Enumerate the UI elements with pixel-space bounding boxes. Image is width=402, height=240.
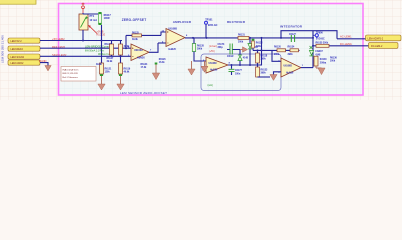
- svg-text:390k: 390k: [261, 59, 267, 61]
- diode D6107: [309, 50, 323, 56]
- svg-text:49.9k: 49.9k: [96, 63, 102, 66]
- no-connect mark: [310, 46, 313, 49]
- poti wiper arrow red: [89, 25, 98, 33]
- svg-text:LEM-ADXF5-2: LEM-ADXF5-2: [368, 37, 384, 40]
- svg-text:100n: 100n: [235, 73, 241, 75]
- svg-text:200ka: 200ka: [320, 63, 327, 65]
- title text vertical: [1, 35, 5, 63]
- svg-text:LEM-GND2: LEM-GND2: [11, 62, 25, 65]
- svg-text:C6173: C6173: [218, 44, 225, 46]
- svg-text:HuN26: HuN26: [286, 72, 294, 74]
- svg-text:LEM-REF2: LEM-REF2: [11, 48, 24, 51]
- wire feedback row R6125: [126, 32, 166, 48]
- svg-text:INA 0.5mA Term: INA 0.5mA Term: [63, 68, 79, 71]
- resistor R6132: [252, 39, 264, 51]
- svg-text:LEM-5V-2: LEM-5V-2: [11, 40, 23, 43]
- wire integrator feedback top: [281, 31, 337, 39]
- ground below R6121: [98, 76, 105, 90]
- op-amp U6106D integrator: [278, 58, 304, 77]
- svg-text:17.3k: 17.3k: [141, 67, 147, 69]
- svg-text:DC-LEM1: DC-LEM1: [340, 42, 352, 46]
- wire zero-offset output: [149, 43, 158, 52]
- diode D6105: [248, 38, 258, 65]
- ground integrator: [270, 75, 277, 81]
- wire integrator output: [301, 67, 313, 69]
- wire cap tap vertical: [261, 38, 263, 51]
- svg-text:16.3k: 16.3k: [159, 62, 165, 64]
- net label +5V small: [209, 51, 215, 53]
- resistor R6128: [192, 38, 206, 61]
- wire DC row: [313, 45, 369, 47]
- svg-text:R6125: R6125: [132, 32, 139, 34]
- svg-text:Ref:1 Tolerance: Ref:1 Tolerance: [63, 76, 79, 79]
- junction dots: [82, 37, 314, 66]
- wire bridge right vertical: [120, 41, 122, 66]
- resistor R6122: [119, 44, 130, 55]
- svg-text:C6177: C6177: [235, 70, 242, 72]
- svg-text:R6133: R6133: [261, 69, 268, 71]
- svg-text:C6127: C6127: [289, 34, 296, 36]
- caption LEM SENSOR ZERO-OFFSET: [120, 91, 167, 95]
- net label PGND: [39, 59, 47, 63]
- wire R6123 vertical: [111, 41, 113, 57]
- value 49.9k note: [96, 63, 102, 66]
- port LEM-ADXF5-2: [366, 35, 402, 41]
- capacitor C6127: [289, 34, 296, 42]
- svg-text:LEM SENSOR ZERO-OFFSET: LEM SENSOR ZERO-OFFSET: [120, 91, 167, 95]
- svg-text:(n/w): (n/w): [208, 84, 214, 87]
- resistor R6118: [256, 50, 268, 63]
- resistor R6130: [314, 56, 327, 66]
- resistor R6126 to ground: [152, 59, 166, 80]
- svg-text:(+5V): (+5V): [209, 51, 215, 53]
- svg-text:INA 50mA 1:1 Res: INA 50mA 1:1 Res: [85, 49, 105, 52]
- wire +5V row: [40, 40, 122, 42]
- resistor R6131: [238, 34, 249, 43]
- resistor R6121: [100, 63, 112, 76]
- svg-text:390k: 390k: [256, 46, 262, 48]
- sheet tag top-left partial: [0, 0, 36, 4]
- svg-text:49.9k: 49.9k: [124, 71, 130, 74]
- svg-text:TP906: TP906: [316, 33, 323, 35]
- power +5V symbol: [82, 3, 85, 14]
- arrow marker brown: [240, 47, 248, 52]
- svg-text:330p: 330p: [218, 47, 224, 49]
- ground PGND: [45, 66, 51, 72]
- svg-text:TP101: TP101: [205, 19, 213, 22]
- svg-text:K6130: K6130: [320, 59, 327, 61]
- svg-text:R6132: R6132: [256, 43, 263, 45]
- svg-text:R6121,123-139: R6121,123-139: [63, 73, 79, 75]
- ground R6128 branch: [188, 61, 195, 75]
- svg-text:PT1: PT1: [90, 15, 95, 18]
- svg-text:49.9k: 49.9k: [107, 60, 113, 63]
- wire bridge left vertical: [101, 25, 103, 65]
- net label +5V LEM2: [52, 37, 65, 41]
- svg-text:R6126: R6126: [159, 59, 166, 61]
- port LEM-5V-2: [8, 38, 40, 43]
- wire amp minus stub: [158, 42, 166, 44]
- wire poti top: [83, 13, 100, 14]
- test point TP906: [313, 33, 325, 41]
- net label +5V-BRIDGE: [97, 31, 106, 37]
- section title ZERO-OFFSET: [122, 18, 147, 22]
- wire SIGN row: [40, 55, 131, 57]
- wire plus input stub: [203, 68, 207, 70]
- resistor R6123: [105, 44, 114, 55]
- svg-text:(m/ser): (m/ser): [209, 45, 217, 48]
- resistor R6117: [98, 12, 111, 25]
- net label m/ser: [209, 45, 217, 48]
- section title RECTIFIER: [227, 20, 246, 24]
- label R6127: [107, 58, 114, 63]
- svg-text:10 mA: 10 mA: [90, 19, 98, 22]
- svg-text:R6119: R6119: [124, 69, 131, 71]
- svg-text:R6124: R6124: [141, 63, 148, 66]
- port LEM-REF2: [8, 46, 40, 51]
- port DC-LEM-2: [369, 43, 399, 49]
- wire node vertical: [312, 31, 314, 68]
- svg-text:LEM 508 280 31.406: LEM 508 280 31.406: [1, 35, 5, 63]
- potentiometer PT1: [79, 14, 97, 30]
- svg-text:AMPLIFIER: AMPLIFIER: [173, 20, 192, 24]
- port LEM-GND2: [8, 60, 40, 65]
- label R6124: [141, 63, 148, 69]
- capacitor C6171: [218, 44, 241, 59]
- note (n/w): [208, 84, 214, 87]
- svg-text:HuN26: HuN26: [210, 70, 218, 72]
- svg-text:200k: 200k: [330, 61, 336, 63]
- port LEM-SIGN2: [8, 54, 40, 59]
- svg-text:390k: 390k: [288, 54, 294, 56]
- svg-text:49.9k: 49.9k: [132, 38, 138, 41]
- op-amp U6106C rectifier: [202, 57, 231, 73]
- svg-text:200k: 200k: [238, 42, 244, 44]
- svg-text:390k: 390k: [197, 49, 203, 51]
- op-amp U6106B amplifier: [162, 29, 189, 52]
- resistor R6120: [274, 47, 286, 57]
- net label REF LEM2: [52, 45, 66, 49]
- wire poti bottom: [82, 30, 84, 41]
- ground rectifier: [201, 61, 208, 72]
- resistor R6134: [288, 46, 299, 57]
- svg-text:HuN26: HuN26: [169, 49, 177, 51]
- net label AC-LEM1: [340, 34, 352, 38]
- resistor R6135: [316, 43, 330, 48]
- svg-text:100nF: 100nF: [227, 56, 234, 58]
- note box assembly: [61, 67, 96, 82]
- label R6136: [330, 57, 337, 62]
- svg-text:AC-LEM1: AC-LEM1: [340, 34, 352, 38]
- green note LEM-BRIDGE: [85, 45, 114, 57]
- wire REF row: [40, 47, 131, 49]
- resistor R6133: [256, 63, 270, 77]
- ground below R6119: [117, 76, 124, 90]
- svg-text:R6136: R6136: [330, 57, 337, 59]
- svg-text:R6121: R6121: [105, 69, 112, 71]
- wire rectifier output: [228, 50, 262, 65]
- wire main signal row: [185, 37, 313, 39]
- svg-text:120k: 120k: [105, 72, 111, 74]
- svg-text:U6106B: U6106B: [169, 29, 178, 31]
- resistor R6119: [119, 63, 131, 76]
- svg-text:R6127: R6127: [107, 58, 114, 60]
- svg-text:LEM-SIGN2: LEM-SIGN2: [11, 56, 25, 59]
- wire integrator plus to ground: [274, 72, 282, 75]
- svg-text:EFD-AC: EFD-AC: [208, 24, 218, 27]
- wire integrator input row: [253, 49, 300, 51]
- svg-text:DC-LEM-2: DC-LEM-2: [371, 45, 383, 48]
- svg-text:ZERO-OFFSET: ZERO-OFFSET: [122, 18, 147, 22]
- svg-text:EVD-BC: EVD-BC: [316, 39, 325, 41]
- svg-text:R6118: R6118: [261, 55, 268, 57]
- svg-text:U6106D: U6106D: [284, 66, 293, 68]
- net label DC-LEM1: [340, 42, 352, 46]
- svg-text:200k: 200k: [274, 54, 280, 56]
- svg-text:390k: 390k: [261, 73, 267, 75]
- section title AMPLIFIER: [173, 20, 192, 24]
- svg-text:R6120: R6120: [274, 47, 281, 49]
- test point TP101: [205, 19, 218, 38]
- svg-text:CAN07: CAN07: [315, 50, 323, 53]
- svg-text:U6106A: U6106A: [134, 49, 143, 52]
- capacitor C6177: [229, 65, 243, 75]
- svg-text:HuN26: HuN26: [137, 56, 145, 59]
- svg-text:U6106C: U6106C: [209, 63, 218, 65]
- diode D6106: [238, 50, 249, 66]
- svg-text:RECTIFIER: RECTIFIER: [227, 20, 246, 24]
- wire AC out: [337, 38, 366, 40]
- wire integrator minus drop: [272, 50, 281, 61]
- ground output: [316, 66, 325, 75]
- op-amp U6106A zero-offset: [128, 44, 152, 61]
- svg-text:INTEGRATOR: INTEGRATOR: [280, 24, 303, 28]
- net label SIGN LEM2: [52, 53, 67, 57]
- svg-text:R6134: R6134: [288, 46, 295, 49]
- svg-text:100R: 100R: [104, 17, 110, 20]
- resistor R6125: [132, 32, 142, 41]
- wire PGND stub: [40, 63, 48, 66]
- svg-text:R6128: R6128: [197, 46, 204, 48]
- svg-text:4148: 4148: [243, 57, 249, 60]
- section title INTEGRATOR: [280, 24, 303, 28]
- group box rectifier: [201, 54, 281, 91]
